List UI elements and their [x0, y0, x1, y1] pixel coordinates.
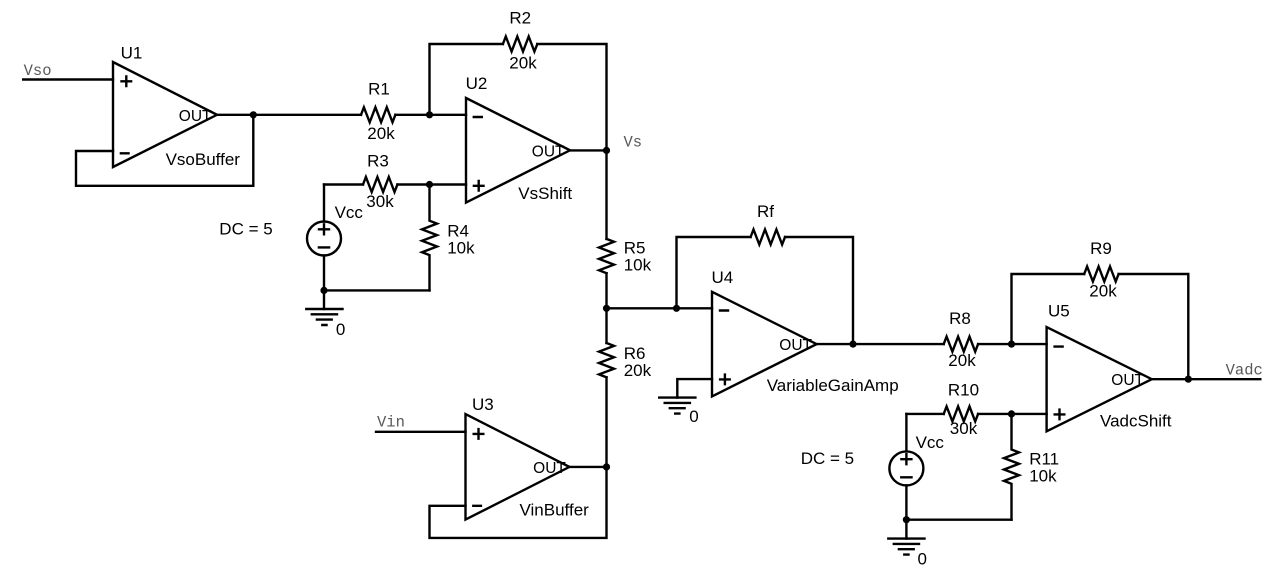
- svg-text:R3: R3: [367, 151, 389, 170]
- wire U3 output: [569, 466, 606, 468]
- svg-text:R6: R6: [624, 344, 646, 363]
- svg-text:OUT: OUT: [779, 337, 812, 354]
- wire Vcc2 top riser: [905, 414, 907, 452]
- wire R2 feedback loop left riser and top: [430, 44, 503, 115]
- junction R8/R9/U5- node: [1008, 341, 1015, 348]
- svg-text:U2: U2: [466, 74, 488, 93]
- svg-text:Vso: Vso: [24, 62, 52, 80]
- wire R9 feedback loop left riser and top: [1012, 274, 1085, 344]
- svg-text:VadcShift: VadcShift: [1100, 411, 1172, 430]
- svg-text:R9: R9: [1090, 239, 1112, 258]
- resistor R2: [503, 37, 537, 52]
- junction R5/R6 node: [603, 305, 610, 312]
- svg-text:10k: 10k: [624, 256, 652, 275]
- resistor R5: [599, 239, 614, 273]
- resistor R11: [1004, 414, 1019, 520]
- svg-text:0: 0: [336, 320, 345, 339]
- wire R5 to junction: [605, 273, 607, 343]
- ground 0 (U4): [659, 398, 695, 414]
- wire R2 to Vs node right riser: [537, 44, 606, 150]
- junction Rf tap node: [673, 305, 680, 312]
- svg-text:OUT: OUT: [533, 460, 566, 477]
- op-amp U3: [466, 414, 570, 519]
- resistor R9: [1084, 267, 1118, 282]
- wire R6 to U3 output node: [605, 377, 607, 467]
- svg-text:20k: 20k: [509, 54, 537, 73]
- svg-text:Vcc: Vcc: [335, 203, 364, 222]
- svg-text:20k: 20k: [948, 351, 976, 370]
- svg-text:U1: U1: [121, 43, 143, 62]
- wire bottom rail V2 to R11: [906, 519, 1011, 521]
- resistor R8: [944, 337, 978, 352]
- svg-text:10k: 10k: [447, 239, 475, 258]
- wire R3 line from Vcc to U2 noninverting input: [324, 183, 363, 185]
- svg-text:0: 0: [918, 550, 927, 569]
- ground 0 (left): [306, 309, 342, 325]
- wire U4 output to R8: [817, 343, 944, 345]
- resistor R3: [363, 177, 397, 192]
- resistor R10: [944, 406, 978, 421]
- svg-text:30k: 30k: [366, 192, 394, 211]
- wire Vin input lead: [376, 431, 466, 433]
- resistor R1: [361, 107, 395, 122]
- wire R1 to U2 inverting input: [395, 114, 466, 116]
- svg-text:Vcc: Vcc: [916, 433, 945, 452]
- svg-text:OUT: OUT: [1111, 372, 1144, 389]
- svg-text:R1: R1: [368, 79, 390, 98]
- svg-text:30k: 30k: [950, 419, 978, 438]
- svg-text:Vin: Vin: [377, 413, 405, 431]
- wire Vcc2 bottom to ground: [905, 485, 907, 538]
- svg-text:20k: 20k: [1089, 282, 1117, 301]
- wire Vcc bottom to ground: [323, 256, 325, 310]
- ground 0 (right): [888, 539, 924, 555]
- svg-text:Vs: Vs: [624, 134, 643, 152]
- voltage source V1 Vcc: [307, 222, 341, 256]
- svg-text:VinBuffer: VinBuffer: [520, 500, 590, 519]
- svg-text:DC = 5: DC = 5: [801, 449, 854, 468]
- wire Vcc top riser: [323, 185, 325, 222]
- junction node Vs: [603, 147, 610, 154]
- svg-text:VsShift: VsShift: [518, 184, 572, 203]
- junction V1/ground/R4 rail: [320, 287, 327, 294]
- wire R10 line from Vcc2: [906, 413, 943, 415]
- svg-text:OUT: OUT: [179, 108, 212, 125]
- wire U1 feedback loop: [76, 115, 253, 186]
- svg-text:U3: U3: [472, 395, 494, 414]
- wire R10 to U5 noninverting input: [978, 413, 1047, 415]
- svg-text:VariableGainAmp: VariableGainAmp: [767, 376, 899, 395]
- svg-text:DC = 5: DC = 5: [219, 220, 272, 239]
- junction R1/R2/U2- node: [426, 111, 433, 118]
- svg-text:0: 0: [689, 407, 698, 426]
- junction R3/R4/U2+ node: [426, 181, 433, 188]
- svg-text:U5: U5: [1048, 302, 1070, 321]
- wire U4 noninverting input to ground: [677, 379, 712, 398]
- svg-text:10k: 10k: [1029, 467, 1057, 486]
- svg-text:R10: R10: [948, 380, 979, 399]
- wire bottom rail V1 to R4: [324, 289, 430, 291]
- op-amp U1: [113, 62, 217, 167]
- wire Rf right riser to U4 output: [785, 237, 853, 344]
- op-amp U5: [1047, 327, 1152, 431]
- svg-text:OUT: OUT: [532, 144, 565, 161]
- svg-text:20k: 20k: [367, 124, 395, 143]
- wire U2 output to Vs node: [570, 149, 607, 151]
- junction R10/R11/U5+ node: [1008, 410, 1015, 417]
- junction U1 output node: [250, 111, 257, 118]
- wire U5 output lead: [1152, 378, 1261, 380]
- wire R8 to U5 inverting input: [978, 343, 1047, 345]
- wire Vso input lead: [23, 78, 113, 80]
- junction V2/ground/R11 rail: [903, 516, 910, 523]
- svg-text:R8: R8: [949, 309, 971, 328]
- resistor R6: [599, 343, 614, 377]
- svg-text:R5: R5: [624, 239, 646, 258]
- junction U4 output / Rf node: [849, 341, 856, 348]
- op-amp U2: [466, 98, 570, 203]
- wire U3 feedback loop: [430, 467, 607, 538]
- wire Rf feedback loop left riser and top: [677, 237, 751, 308]
- wire R3 to U2 plus input: [397, 183, 466, 185]
- svg-text:20k: 20k: [624, 361, 652, 380]
- resistor R4: [422, 185, 437, 291]
- wire Vs column R5/R6: [605, 150, 607, 239]
- junction U3 out / R6 node: [603, 463, 610, 470]
- svg-text:Vadc: Vadc: [1226, 361, 1263, 379]
- svg-text:VsoBuffer: VsoBuffer: [166, 150, 241, 169]
- junction U5 output / R9 node: [1185, 376, 1192, 383]
- wire U1 output to R1: [217, 114, 361, 116]
- resistor Rf: [751, 230, 785, 245]
- svg-text:U4: U4: [712, 268, 734, 287]
- svg-text:Rf: Rf: [757, 202, 774, 221]
- wire R9 right riser to U5 output: [1119, 274, 1189, 379]
- wire R5R6 node to U4 inverting input: [607, 307, 713, 309]
- svg-text:R2: R2: [509, 9, 531, 28]
- op-amp U4: [712, 292, 817, 397]
- voltage source V2 Vcc: [889, 451, 923, 485]
